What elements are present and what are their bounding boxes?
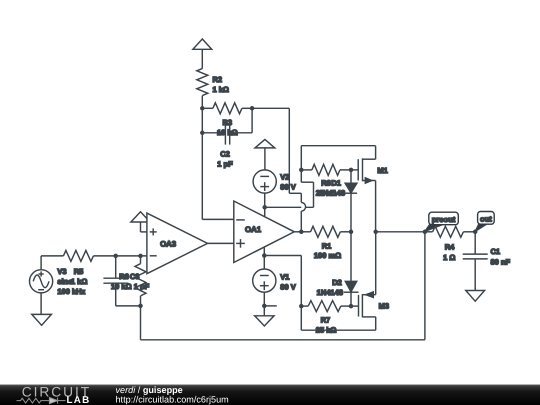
- wire feedback hop to output node: [300, 211, 302, 232]
- svg-text:1 kΩ: 1 kΩ: [213, 85, 229, 94]
- wire V2 bottom lead: [264, 193, 266, 216]
- wire feedback from R3 node: [252, 107, 289, 109]
- wire flag to V2: [264, 148, 266, 170]
- svg-text:http://circuitlab.com/c6rj5um: http://circuitlab.com/c6rj5um: [116, 395, 229, 405]
- label R3 value: [217, 118, 238, 137]
- wire feedback bottom rail: [141, 339, 425, 341]
- label R4 value: [443, 243, 455, 262]
- node junction R5 C3: [113, 254, 118, 259]
- net flag preout: [425, 212, 458, 231]
- wire R2 to node: [201, 96, 203, 109]
- resistor R2: [197, 69, 208, 96]
- svg-text:M1: M1: [377, 166, 387, 175]
- node junction preout: [423, 230, 428, 235]
- wire feedback rail up to preout: [424, 232, 426, 340]
- svg-text:1 kΩ: 1 kΩ: [71, 277, 87, 286]
- power flag top: [193, 39, 212, 49]
- transistor M1: [358, 146, 375, 232]
- net flag out: [475, 212, 494, 232]
- resistor R1: [311, 226, 341, 237]
- node junction OA1 bottom supply: [262, 253, 267, 258]
- svg-text:100 mΩ: 100 mΩ: [314, 251, 341, 260]
- svg-text:C1: C1: [491, 247, 501, 256]
- node junction R6 C3 bottom: [138, 304, 143, 309]
- svg-text:M3: M3: [379, 302, 389, 311]
- ground below C1: [466, 291, 485, 302]
- svg-text:C2: C2: [220, 149, 230, 158]
- svg-text:R6: R6: [119, 272, 129, 281]
- node junction R2 R3: [200, 106, 205, 111]
- svg-text:R7: R7: [321, 315, 331, 324]
- svg-text:V2: V2: [280, 172, 289, 181]
- label D2 value: [317, 278, 343, 297]
- diode D2: [344, 232, 359, 306]
- ground below V1: [255, 316, 274, 326]
- svg-text:R2: R2: [213, 75, 223, 84]
- label R8 value: [316, 179, 337, 198]
- wire gate M3: [351, 305, 359, 307]
- wire jog to R8 node: [300, 170, 302, 182]
- label R5 value: [71, 267, 87, 286]
- svg-text:preout: preout: [432, 215, 456, 224]
- label R1 value: [314, 241, 341, 260]
- svg-text:R3: R3: [223, 118, 233, 127]
- wire R3 node down to OA1 minus: [201, 133, 203, 220]
- wire OA1 supply to R7 branch: [264, 255, 301, 257]
- node junction C2 left: [200, 131, 205, 136]
- svg-text:80 V: 80 V: [280, 283, 295, 292]
- ground below V3: [32, 314, 52, 325]
- op-amp OA3: [147, 213, 208, 274]
- wire C1 top lead: [474, 232, 476, 254]
- label R7 value: [316, 315, 337, 334]
- label C2 value: [217, 149, 233, 168]
- svg-text:10 kΩ: 10 kΩ: [111, 282, 132, 291]
- op-amp OA1: [234, 201, 294, 263]
- wire R6 bottom lead: [140, 296, 142, 306]
- wire V1 bottom lead: [263, 292, 265, 316]
- wire C2 right lead: [230, 132, 252, 134]
- wire gate M1: [351, 169, 358, 171]
- svg-text:R4: R4: [445, 243, 455, 252]
- wire C3 bottom lead: [115, 283, 117, 306]
- svg-text:OA3: OA3: [160, 240, 177, 249]
- footer bar: [0, 385, 540, 405]
- wire feedback rail down: [140, 306, 142, 340]
- label V1 value: [280, 272, 295, 291]
- label V3 value: [57, 267, 85, 296]
- wire V3 bottom lead: [40, 293, 42, 315]
- node junction OA1 output: [299, 230, 304, 235]
- wire C2 left lead: [202, 132, 225, 134]
- svg-text:1 Ω: 1 Ω: [443, 253, 455, 262]
- svg-text:LAB: LAB: [67, 395, 91, 405]
- svg-text:V1: V1: [280, 272, 289, 281]
- svg-text:1 pF: 1 pF: [217, 160, 233, 169]
- node junction OA1 top supply: [262, 205, 267, 210]
- svg-text:out: out: [480, 215, 492, 224]
- wire feedback jog right: [289, 192, 301, 194]
- wire C3 top lead: [115, 256, 117, 278]
- node junction R8 right gate D1: [349, 168, 354, 173]
- node junction out: [473, 230, 478, 235]
- wire top rail: [301, 145, 375, 147]
- voltage source V3: [29, 270, 52, 293]
- label R6 value: [111, 272, 132, 291]
- wire flag to OA3 plus input: [140, 222, 142, 232]
- svg-text:R5: R5: [74, 267, 84, 276]
- node junction R7 left: [299, 304, 304, 309]
- node junction M1 M3 output: [373, 230, 378, 235]
- wire flag to R2: [201, 49, 203, 68]
- resistor R4: [433, 226, 464, 237]
- wire OA1 bottom supply lead: [263, 247, 265, 269]
- node junction R1 right: [349, 230, 354, 235]
- resistor R5: [63, 250, 93, 261]
- svg-text:1N4148: 1N4148: [317, 288, 343, 297]
- wire V3 to R5: [41, 255, 63, 257]
- node junction V1 ground: [262, 304, 267, 309]
- node junction R8 left: [299, 168, 304, 173]
- wire V1 ground stub: [264, 305, 277, 307]
- CircuitLab logo symbol: [17, 398, 66, 404]
- wire OA1 minus input: [202, 218, 234, 220]
- svg-text:OA1: OA1: [245, 225, 262, 234]
- wire node to R3: [202, 107, 213, 109]
- svg-text:80 V: 80 V: [280, 182, 295, 191]
- svg-text:80 nF: 80 nF: [491, 257, 511, 266]
- wire feedback down to hop: [300, 193, 302, 202]
- svg-text:verdi / guiseppe: verdi / guiseppe: [116, 385, 183, 395]
- wire jog left: [301, 181, 313, 183]
- voltage source V1: [253, 269, 276, 292]
- capacitor C3: [103, 278, 128, 283]
- resistor R8: [312, 164, 340, 175]
- wire R6 top lead: [140, 256, 142, 264]
- wire R5 to OA3 minus input: [93, 255, 146, 257]
- wire OA1 supply to R8 branch: [265, 206, 314, 208]
- diode D1: [345, 170, 357, 232]
- wire hop over supply wire: [301, 203, 305, 212]
- wire jog up: [313, 182, 315, 207]
- wire output to preout: [376, 231, 425, 233]
- transistor M3: [359, 232, 376, 330]
- voltage source V2: [253, 170, 276, 193]
- label V2 value: [280, 172, 295, 191]
- svg-text:1N4148: 1N4148: [319, 189, 345, 198]
- wire V3 top lead: [40, 256, 42, 270]
- node junction R6 top: [138, 254, 143, 259]
- node junction R3 right: [250, 106, 255, 111]
- svg-text:D2: D2: [332, 278, 342, 287]
- wire OA1 output: [294, 231, 301, 233]
- wire C1 bottom lead: [474, 259, 476, 291]
- capacitor C2: [225, 122, 229, 144]
- label D1 value: [319, 179, 345, 198]
- resistor R3: [213, 103, 242, 114]
- wire C2 to R3 right node: [251, 108, 253, 133]
- svg-text:100 kHz: 100 kHz: [57, 287, 85, 296]
- power flag at OA3 plus input: [131, 212, 150, 222]
- svg-text:R8: R8: [321, 179, 331, 188]
- wire R3 node down left: [201, 108, 203, 133]
- svg-text:V3: V3: [57, 267, 66, 276]
- wire OA3 output to OA1 plus input: [208, 242, 234, 244]
- wire top rail to R8 left: [300, 146, 302, 170]
- svg-text:D1: D1: [331, 179, 341, 188]
- svg-text:R1: R1: [322, 241, 332, 250]
- label R2 value: [213, 75, 229, 94]
- capacitor C1: [463, 254, 488, 259]
- wire M3 source return: [301, 329, 375, 331]
- node junction R7 right gate D2: [349, 304, 354, 309]
- resistor R6: [135, 264, 146, 296]
- wire R3 right: [242, 107, 252, 109]
- wire feedback down: [288, 108, 290, 193]
- label C1 value: [491, 247, 511, 266]
- power flag above V2: [255, 139, 275, 148]
- resistor R7: [308, 301, 341, 312]
- label C3 value: [130, 272, 150, 291]
